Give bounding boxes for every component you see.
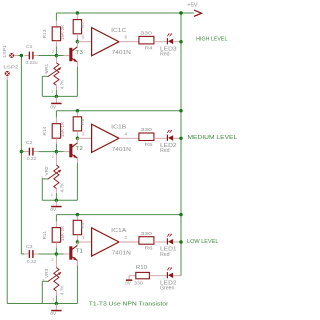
svg-text:R4: R4 (145, 45, 153, 51)
node LED-rail MEDIUM (179, 137, 182, 140)
wirepad LSP1 (9, 53, 14, 58)
svg-text:4.7K: 4.7K (59, 79, 64, 89)
svg-text:0.22: 0.22 (27, 156, 37, 162)
svg-text:3: 3 (45, 71, 47, 75)
resistor R9 (76, 215, 78, 217)
svg-text:Red: Red (160, 148, 170, 154)
capacitor C3 (21, 253, 24, 255)
wire LSP2 ground line (6, 80, 8, 304)
svg-text:Red: Red (160, 52, 170, 58)
node base MEDIUM (55, 150, 58, 153)
ground 0V LOW (55, 304, 57, 310)
svg-text:2: 2 (52, 155, 54, 159)
wire base HIGH (56, 55, 63, 57)
ground 0V HIGH (55, 96, 57, 102)
resistor R8 (76, 111, 78, 113)
svg-text:5: 5 (82, 35, 85, 40)
node rail-R8 (76, 109, 79, 112)
svg-text:1: 1 (51, 90, 53, 94)
svg-text:3: 3 (82, 131, 85, 136)
trimmer VR3 4.7K (55, 254, 57, 257)
svg-text:1: 1 (51, 193, 53, 197)
wire LED to rail HIGH (173, 41, 181, 43)
svg-text:R10: R10 (136, 265, 147, 271)
wire bottom rail MEDIUM (42, 199, 77, 201)
svg-text:LOW LEVEL: LOW LEVEL (187, 239, 219, 245)
transistor T1 (69, 246, 72, 259)
wire LED to rail LOW (173, 241, 181, 243)
svg-text:330: 330 (141, 127, 153, 133)
wire collector LOW (76, 242, 78, 245)
supply +5V symbol (194, 10, 202, 16)
ground 0V MEDIUM (55, 200, 57, 206)
svg-text:C1: C1 (26, 44, 33, 50)
svg-text:T1: T1 (76, 249, 83, 255)
LED LED3 Red (167, 34, 169, 37)
svg-text:330: 330 (141, 31, 153, 37)
transistor T3 (69, 48, 72, 61)
capacitor C1 (24, 55, 28, 57)
svg-text:R5: R5 (145, 142, 153, 148)
svg-text:R14: R14 (42, 126, 48, 135)
LED LED2 Green (167, 268, 169, 271)
svg-text:LSP2: LSP2 (3, 64, 18, 70)
svg-text:330: 330 (141, 231, 153, 237)
svg-text:T3: T3 (76, 50, 83, 56)
node rail-R7 (76, 11, 79, 14)
node collector HIGH (76, 40, 79, 43)
op-amp IC1A (77, 241, 91, 243)
svg-text:2: 2 (51, 258, 53, 262)
svg-text:7401N: 7401N (112, 251, 131, 257)
wire wiper loop MEDIUM (42, 178, 47, 180)
svg-text:2: 2 (125, 235, 128, 240)
svg-text:6: 6 (125, 35, 128, 40)
svg-text:R9: R9 (80, 222, 86, 228)
resistor R14 (55, 111, 57, 118)
resistor R11 (55, 215, 57, 222)
svg-text:Green: Green (160, 286, 175, 292)
resistor R6 330 (139, 237, 154, 245)
node rail-R9 (76, 213, 79, 216)
svg-text:15K-2K: 15K-2K (60, 24, 65, 40)
op-amp IC1C (77, 41, 91, 43)
svg-text:R8: R8 (80, 118, 86, 124)
wire emitter HIGH (76, 62, 78, 67)
wire input signal bus (20, 56, 22, 254)
node rail-drop MEDIUM (179, 109, 182, 112)
LED LED2 Red (167, 130, 169, 133)
node gnd MEDIUM (55, 199, 58, 202)
svg-text:C2: C2 (26, 140, 33, 146)
trimmer VR2 4.7K (55, 152, 57, 155)
wire bottom rail HIGH (42, 95, 77, 97)
svg-text:7401N: 7401N (112, 50, 131, 56)
svg-text:0V: 0V (125, 281, 132, 286)
transistor T2 (69, 144, 72, 157)
wire +V rail stage MEDIUM (56, 110, 181, 112)
svg-text:C3: C3 (26, 244, 33, 250)
svg-text:0.22u: 0.22u (25, 60, 37, 66)
power rail +5V vertical (180, 13, 182, 276)
svg-text:R7: R7 (80, 21, 86, 27)
svg-text:4.7K: 4.7K (59, 182, 64, 192)
svg-text:0V: 0V (50, 104, 57, 109)
svg-text:IC1B: IC1B (111, 124, 126, 130)
svg-text:MEDIUM LEVEL: MEDIUM LEVEL (188, 135, 238, 141)
wire R to LED LOW (154, 241, 167, 243)
capacitor C2 (21, 151, 24, 153)
svg-text:15K-2K: 15K-2K (60, 225, 65, 241)
wire +V rail stage LOW (56, 214, 181, 216)
wire R to LED HIGH (154, 41, 167, 43)
node collector LOW (76, 240, 79, 243)
svg-text:0.22: 0.22 (27, 259, 37, 265)
svg-text:IC1C: IC1C (111, 28, 126, 34)
wire output IC1C to R (119, 41, 140, 43)
wire R to LED MEDIUM (154, 137, 167, 139)
resistor R5 330 (139, 133, 154, 141)
svg-text:4.7K: 4.7K (59, 285, 64, 295)
wirepad LSP2 (5, 71, 10, 76)
svg-text:IC1A: IC1A (111, 228, 126, 234)
wire R10 to LED2 (150, 275, 167, 277)
wire emitter LOW (76, 260, 78, 265)
wire LED2 to rail (173, 275, 181, 277)
ground 0V power branch (129, 275, 136, 277)
svg-text:R11: R11 (42, 231, 48, 240)
node rail-drop HIGH (179, 11, 182, 14)
node collector MEDIUM (76, 137, 79, 140)
wire bottom rail LOW (7, 303, 77, 305)
resistor R10 330 (136, 272, 150, 278)
resistor R13 (55, 13, 57, 21)
svg-text:LSP1: LSP1 (2, 45, 8, 58)
wire base MEDIUM (56, 151, 63, 153)
wire collector HIGH (76, 42, 78, 47)
svg-text:HIGH LEVEL: HIGH LEVEL (196, 36, 227, 42)
resistor R4 330 (139, 36, 154, 44)
wire base LOW (56, 253, 63, 255)
svg-text:VR3: VR3 (44, 268, 50, 278)
svg-text:7401N: 7401N (112, 147, 131, 153)
svg-text:R6: R6 (145, 246, 153, 252)
wire wiper loop HIGH (42, 75, 47, 77)
wire emitter MEDIUM (76, 158, 78, 163)
svg-text:1: 1 (82, 235, 85, 240)
svg-text:VR2: VR2 (44, 166, 50, 176)
node rail-drop LOW (179, 213, 182, 216)
svg-text:330: 330 (134, 281, 143, 287)
node gnd LOW (55, 302, 58, 305)
trimmer VR1 4.7K (55, 56, 57, 59)
resistor R7 (76, 13, 78, 15)
wire output IC1A to R (119, 241, 140, 243)
svg-text:1: 1 (52, 297, 54, 301)
svg-text:R13: R13 (42, 29, 48, 38)
node gnd HIGH (55, 95, 58, 98)
node LED-rail HIGH (179, 40, 182, 43)
svg-text:15K-1K: 15K-1K (60, 121, 65, 137)
node signal-C1 tap (20, 54, 23, 57)
node signal-C2 tap (20, 150, 23, 153)
svg-text:2: 2 (52, 50, 54, 54)
svg-text:T1-T3 Use NPN Transistor: T1-T3 Use NPN Transistor (89, 301, 169, 307)
svg-text:Red: Red (160, 252, 170, 258)
op-amp IC1B (77, 137, 91, 139)
node base LOW (55, 252, 58, 255)
svg-text:T2: T2 (76, 146, 83, 152)
node LED-rail LOW (179, 240, 182, 243)
node base HIGH (55, 54, 58, 57)
svg-text:+5V: +5V (187, 2, 198, 8)
svg-text:0V: 0V (50, 207, 57, 212)
svg-text:4: 4 (125, 131, 128, 136)
wire output IC1B to R (119, 137, 140, 139)
wire +V rail stage HIGH (56, 12, 181, 14)
wire wiper loop LOW (42, 280, 47, 282)
wire LED to rail MEDIUM (173, 137, 181, 139)
wire collector MEDIUM (76, 138, 78, 143)
LED LED1 Red (167, 234, 169, 237)
svg-text:0V: 0V (50, 311, 57, 316)
